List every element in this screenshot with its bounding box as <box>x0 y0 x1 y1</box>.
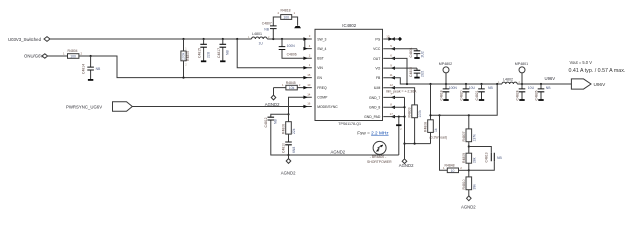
resistor R4818 <box>278 8 296 19</box>
svg-text:22k: 22k <box>292 128 296 134</box>
svg-text:0.41 A typ. / 0.57 A max.: 0.41 A typ. / 0.57 A max. <box>569 68 626 74</box>
svg-text:IC4802: IC4802 <box>342 23 356 28</box>
svg-text:R4848: R4848 <box>445 164 455 168</box>
inductor L4801 <box>248 32 270 46</box>
svg-text:R4806: R4806 <box>282 124 286 134</box>
inductor L4802 <box>498 78 521 84</box>
svg-text:12: 12 <box>390 83 394 87</box>
port U96V <box>571 79 606 89</box>
capacitor C4807 snubber <box>262 17 281 39</box>
svg-text:100: 100 <box>70 55 76 59</box>
resistor R4809 divider mid <box>462 147 476 171</box>
capacitor C4821 <box>475 84 493 101</box>
svg-text:R4810: R4810 <box>462 179 466 189</box>
pin numbers left side <box>307 34 311 105</box>
svg-text:C4817: C4817 <box>217 48 221 58</box>
svg-text:MP4802: MP4802 <box>439 62 452 66</box>
jumper BR4800 SHORTPOWER <box>367 141 392 164</box>
wire GND_7 <box>383 96 404 98</box>
capacitor C4817 <box>217 39 230 61</box>
capacitor C4812 comp <box>264 114 288 155</box>
capacitor C4801 <box>409 47 424 58</box>
port U03V3_Switched <box>8 37 50 42</box>
svg-text:U96V: U96V <box>545 76 556 81</box>
svg-text:BST: BST <box>317 57 324 61</box>
svg-text:10U: 10U <box>469 86 476 90</box>
svg-text:AGND2: AGND2 <box>399 163 414 168</box>
svg-text:C4818: C4818 <box>440 90 444 100</box>
svg-text:100k: 100k <box>181 52 185 60</box>
capacitor C4813 parallel <box>469 147 503 171</box>
svg-text:NB: NB <box>226 50 230 55</box>
svg-text:C4824: C4824 <box>516 90 520 100</box>
svg-text:NB: NB <box>546 86 551 90</box>
svg-text:- BR4800 -: - BR4800 - <box>370 155 386 159</box>
svg-text:R4805: R4805 <box>186 51 190 61</box>
svg-text:U03V3_Switched: U03V3_Switched <box>8 37 42 42</box>
svg-text:2U2: 2U2 <box>420 71 424 77</box>
svg-text:NB: NB <box>96 67 101 71</box>
svg-text:2U2: 2U2 <box>420 51 424 57</box>
svg-text:C4802: C4802 <box>409 67 413 77</box>
capacitor C4810 comp <box>282 142 296 155</box>
svg-text:GND_7: GND_7 <box>369 96 380 100</box>
svg-text:VIN: VIN <box>317 66 323 70</box>
svg-text:100: 100 <box>283 16 289 20</box>
svg-text:C4801: C4801 <box>409 47 413 57</box>
svg-text:10k: 10k <box>289 86 295 90</box>
svg-text:AGND2: AGND2 <box>281 171 296 176</box>
svg-text:AGND2: AGND2 <box>331 150 346 155</box>
svg-text:10: 10 <box>451 169 455 173</box>
svg-text:R4809: R4809 <box>462 153 466 163</box>
svg-text:R4818: R4818 <box>281 8 291 12</box>
svg-text:EN: EN <box>317 76 322 80</box>
svg-text:10: 10 <box>307 83 311 87</box>
svg-text:C4812: C4812 <box>264 117 268 127</box>
svg-text:C4813: C4813 <box>484 152 488 162</box>
capacitor C4820 <box>460 84 476 101</box>
svg-text:100k: 100k <box>418 110 422 118</box>
wire VCC <box>383 48 417 50</box>
svg-text:100N: 100N <box>287 44 296 48</box>
svg-text:GND_PAD: GND_PAD <box>364 115 381 119</box>
svg-text:OUT: OUT <box>373 57 380 61</box>
svg-text:R4804: R4804 <box>68 49 78 53</box>
ground PAD bar <box>396 116 402 156</box>
svg-text:PWRSYNC_UG6V: PWRSYNC_UG6V <box>66 104 102 109</box>
svg-text:GND_8: GND_8 <box>369 106 380 110</box>
svg-text:ILIM: ILIM <box>374 86 381 90</box>
svg-text:39k: 39k <box>472 184 476 190</box>
svg-text:C4826: C4826 <box>535 90 539 100</box>
pin numbers right side <box>386 34 393 116</box>
resistor R4806 comp <box>282 114 296 142</box>
wire COMP net <box>289 97 312 114</box>
wire 3V3 rail <box>50 38 252 40</box>
svg-text:R4807: R4807 <box>462 131 466 141</box>
svg-text:FB: FB <box>376 76 381 80</box>
wire ground link <box>405 143 431 145</box>
svg-text:15: 15 <box>307 73 311 77</box>
svg-text:COMP: COMP <box>317 96 328 100</box>
wire comp ground <box>271 154 289 156</box>
svg-text:Vout = 5.0 V: Vout = 5.0 V <box>570 60 593 65</box>
wire GND_8 <box>383 106 404 108</box>
svg-text:L4802: L4802 <box>503 78 513 82</box>
wire ILIM <box>383 88 414 105</box>
resistor R4845 <box>274 81 312 95</box>
svg-text:SW_3: SW_3 <box>317 37 326 41</box>
svg-text:C4814: C4814 <box>82 64 86 74</box>
node ONU junction <box>90 55 92 57</box>
annotation Fsw <box>357 131 389 136</box>
svg-text:14: 14 <box>307 92 311 96</box>
port PWRSYNC_UG6V <box>66 102 132 112</box>
capacitor C4806 bootstrap <box>279 39 312 58</box>
wire R4818 to mound <box>292 17 298 26</box>
port ONU/G6V <box>24 54 48 59</box>
svg-text:SW_4: SW_4 <box>317 47 326 51</box>
svg-text:C4806: C4806 <box>287 53 297 57</box>
wire SW_4 drop <box>305 39 312 49</box>
resistor R4807 divider top <box>462 115 476 146</box>
svg-text:AGND2: AGND2 <box>461 205 476 210</box>
resistor R4805 pull-up <box>181 39 190 78</box>
svg-text:1k: 1k <box>434 128 438 132</box>
ground AGND2 diamond at FREQ <box>265 95 280 107</box>
wire AGND2 run to ground bus <box>289 154 399 156</box>
capacitor C4824 <box>516 84 535 101</box>
testpoint MP4801 <box>515 62 528 84</box>
ground mound <box>294 26 301 28</box>
svg-text:100N: 100N <box>449 86 458 90</box>
svg-text:NB: NB <box>273 119 277 124</box>
capacitor C4826 <box>535 84 552 101</box>
wire EN net <box>79 56 312 78</box>
pin arrows right side <box>391 37 395 118</box>
svg-text:R4803: R4803 <box>408 107 412 117</box>
ground AGND2 diamond divider <box>461 196 476 210</box>
svg-text:NB: NB <box>264 27 269 31</box>
wire VIN branch <box>237 39 312 68</box>
wire FB sense line <box>431 84 498 115</box>
capacitor C4814 <box>82 56 101 80</box>
wire SW node <box>267 38 312 40</box>
svg-text:6N8: 6N8 <box>292 147 296 153</box>
pin arrows left side <box>303 37 307 108</box>
svg-text:(0.2W load): (0.2W load) <box>430 136 448 140</box>
svg-text:22U: 22U <box>206 51 210 58</box>
svg-text:Fsw = 2.2 MHz: Fsw = 2.2 MHz <box>357 131 389 136</box>
svg-text:FREQ: FREQ <box>317 86 327 90</box>
svg-text:U96V: U96V <box>594 82 607 87</box>
svg-text:C4821: C4821 <box>475 90 479 100</box>
svg-text:R4808: R4808 <box>424 122 428 132</box>
wire FB to rail <box>383 78 407 84</box>
svg-text:AGND2: AGND2 <box>265 102 280 107</box>
resistor R4804 <box>63 49 83 59</box>
svg-text:28k: 28k <box>472 157 476 163</box>
resistor R4848 <box>443 164 469 173</box>
svg-text:16: 16 <box>307 102 311 106</box>
svg-text:SHORTPOWER: SHORTPOWER <box>367 160 392 164</box>
svg-text:11: 11 <box>390 73 393 77</box>
testpoint MP4802 <box>439 62 452 84</box>
wire PG stub <box>383 38 398 40</box>
svg-text:PG: PG <box>375 37 380 41</box>
resistor R4810 divider bottom <box>462 170 476 196</box>
ground AGND2 diamond comp <box>281 155 296 176</box>
svg-text:1U: 1U <box>259 42 264 46</box>
svg-text:L4801: L4801 <box>252 32 262 36</box>
capacitor C4802 <box>409 67 424 78</box>
wire VOUT rail <box>407 83 571 85</box>
svg-text:NB: NB <box>497 156 502 160</box>
svg-text:TPS61178-Q1: TPS61178-Q1 <box>338 122 361 126</box>
svg-text:17: 17 <box>390 112 394 116</box>
wire ground bus <box>404 97 406 158</box>
node dots on VOUT rail <box>406 83 408 85</box>
svg-text:R4845: R4845 <box>286 81 296 85</box>
wire OUT to rail <box>383 58 407 84</box>
wire ONU to R4804 <box>48 55 68 57</box>
capacitor C4818 <box>440 84 458 101</box>
svg-text:MODE/SYNC: MODE/SYNC <box>317 105 338 109</box>
wire MODE/SYNC net <box>132 106 311 108</box>
svg-text:C4810: C4810 <box>282 143 286 153</box>
svg-text:C4807: C4807 <box>262 22 272 26</box>
svg-text:NB: NB <box>488 86 493 90</box>
svg-text:VO: VO <box>375 67 380 71</box>
wire sense drop to R4848 <box>440 115 448 170</box>
op-amp U1 : IC4802 TPS61178-Q1 main converter <box>315 23 383 126</box>
resistor R4803 <box>408 105 423 144</box>
svg-text:VCC: VCC <box>373 47 381 51</box>
svg-text:137k: 137k <box>472 134 476 142</box>
svg-text:MP4801: MP4801 <box>515 62 528 66</box>
svg-text:10U: 10U <box>528 86 535 90</box>
resistor R4808 bleeder <box>424 84 447 144</box>
node dots on 3V3 rail <box>182 38 184 40</box>
wire VO <box>383 67 417 69</box>
svg-text:ONU/G6V: ONU/G6V <box>24 54 43 59</box>
capacitor C4815 <box>198 39 211 61</box>
svg-text:C4820: C4820 <box>460 90 464 100</box>
wire GND_PAD <box>383 116 404 118</box>
svg-text:Ilim_peak = +-2.36A: Ilim_peak = +-2.36A <box>386 89 417 93</box>
svg-text:C4815: C4815 <box>198 48 202 58</box>
ground AGND2 diamond bus <box>399 159 414 168</box>
